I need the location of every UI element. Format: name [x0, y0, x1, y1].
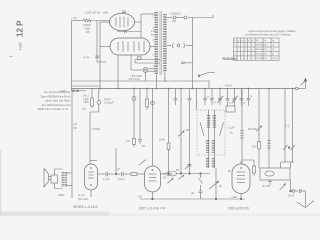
wire drop x285 switch S4: [284, 89, 286, 163]
svg-text:2000 µF/5.5 W: 2000 µF/5.5 W: [227, 207, 250, 211]
terminal beads on bus left: [73, 90, 75, 92]
table of voltages: [234, 38, 280, 60]
bus main rail y88.5: [72, 88, 296, 90]
tube VA output envelope: [85, 164, 98, 190]
antenna A1: [295, 87, 298, 90]
wire left drop to rails: [71, 21, 73, 92]
wire drop x140: [139, 89, 141, 140]
svg-text:4W: 4W: [172, 19, 176, 23]
capacitor C8 coupling: [138, 139, 142, 141]
svg-text:µF 100: µF 100: [262, 184, 271, 188]
tube VB envelope: [145, 166, 161, 192]
svg-text:+10: +10: [137, 195, 142, 199]
wire V2 left pin: [100, 46, 110, 48]
wire drop x234.5 capacitor C16 trimmer: [234, 89, 236, 99]
svg-text:2x300: 2x300: [272, 58, 279, 60]
coil L4 winding: [241, 130, 244, 139]
table cell marks: [234, 40, 278, 60]
rail bottom y199: [140, 198, 245, 200]
wire drop x292.5 switch S5: [292, 89, 294, 163]
detector stage box: [260, 168, 290, 180]
wire mains drop x192.5: [192, 18, 194, 89]
capacitor C20: [116, 173, 121, 175]
transformer T1 primary taps: [153, 16, 155, 66]
IF coil L3b below box: [212, 158, 215, 168]
IF coil L3a below box: [206, 158, 209, 168]
IF coil L2b: [212, 140, 215, 153]
wire drop x181 trimmer: [180, 89, 182, 174]
wire drop x168.5: [168, 89, 170, 144]
tube VA electrodes: [88, 171, 94, 173]
wire VC bottom: [240, 194, 242, 200]
wire VC top: [240, 161, 242, 164]
wire x141 riser: [140, 14, 142, 38]
junction dots on bus: [99, 80, 293, 89]
wire heater taps upper: [135, 59, 160, 61]
IF coil L1b: [213, 115, 216, 128]
svg-text:+0,1µ: +0,1µ: [83, 55, 90, 59]
wire V1 right pin: [135, 21, 142, 23]
capacitor C24: [268, 179, 272, 181]
wire y162 link: [281, 161, 294, 163]
svg-text:+120: +120: [231, 195, 237, 199]
capacitor C11: [188, 164, 192, 166]
svg-text:Spannungen gemessen gegen Chas: Spannungen gemessen gegen Chassis: [249, 29, 297, 33]
svg-text:0,1µF: 0,1µF: [104, 97, 111, 101]
IF coil L2a: [206, 140, 209, 153]
svg-text:µF: µF: [117, 167, 120, 171]
svg-text:0Ω: 0Ω: [163, 176, 166, 180]
svg-text:Huth: Huth: [19, 42, 23, 50]
wire +A supply top horizontal: [72, 20, 84, 22]
speaker voice coil box: [51, 175, 58, 183]
resistor R7: [131, 173, 137, 176]
svg-text:0,3MΩ: 0,3MΩ: [93, 127, 101, 131]
wire top y14 to transformer: [141, 13, 155, 15]
earth jack terminal: [292, 190, 295, 193]
wire IF feeds: [208, 110, 210, 168]
svg-text:RE604 u. A 4110: RE604 u. A 4110: [73, 205, 98, 209]
pilot lamp LP1: [143, 68, 148, 73]
svg-text:(L 42): (L 42): [78, 193, 85, 197]
wire lamp bottom to rail: [145, 72, 147, 81]
svg-text:220Ω: 220Ω: [58, 193, 64, 197]
wire long drop x72 left: [71, 91, 73, 198]
note paragraph: [38, 90, 71, 111]
wire drop x248.5 capacitor C18: [248, 89, 250, 99]
wire drop x241.5 capacitor C17: [241, 89, 243, 99]
wire drop x175.5 with capacitor C9: [175, 89, 177, 99]
tube VC envelope: [232, 164, 250, 194]
tube VB electrodes: [149, 173, 157, 175]
tube V2 envelope: [110, 38, 150, 55]
switch S6 above VB: [139, 160, 146, 166]
resistor R2: [91, 98, 94, 106]
svg-text:750Ω: 750Ω: [84, 26, 90, 30]
wire drop x196.5: [196, 89, 198, 111]
resistor R8 beside VC: [253, 166, 256, 173]
junction x116: [115, 148, 117, 174]
wire drop x134: [133, 89, 135, 139]
svg-text:RGN4: RGN4: [225, 85, 232, 88]
svg-text:des Widerstandes auf: des Widerstandes auf: [41, 103, 70, 107]
svg-text:500 4W: 500 4W: [248, 127, 257, 131]
svg-text:g: g: [238, 40, 239, 42]
coil L7 oval: [265, 171, 274, 176]
wire drop x212 capacitor C13: [211, 89, 213, 99]
svg-text:6007 u.D.4 W: 6007 u.D.4 W: [139, 207, 159, 211]
wire VA bottom: [90, 190, 92, 197]
svg-text:4µ: 4µ: [230, 131, 233, 135]
svg-text:50Ω: 50Ω: [252, 145, 257, 149]
junction dots bottom: [115, 173, 117, 175]
wire drop x92: [91, 89, 93, 99]
fuse F1: [173, 16, 176, 19]
coil L6 oval: [169, 171, 177, 176]
IF/tuning section below bus: [167, 89, 250, 174]
tube V2 electrodes: [117, 42, 119, 51]
svg-text:g: g: [241, 40, 242, 42]
wire drop x227.5 capacitor C15: [227, 89, 229, 99]
capacitor C4: [181, 61, 185, 63]
wire AF line y173.5: [163, 173, 166, 175]
wire drop x205 capacitor C12: [204, 89, 206, 99]
trimmer T below: [179, 175, 185, 180]
svg-text:0,007 µF 4g ~ 2kΩ: 0,007 µF 4g ~ 2kΩ: [85, 11, 108, 15]
svg-text:0,1µF: 0,1µF: [228, 126, 235, 130]
wire x290.5 to earth jack: [290, 180, 292, 191]
output transformer T2 winding a: [61, 172, 64, 187]
resistor R5: [167, 143, 170, 150]
svg-text:0,3: 0,3: [126, 139, 130, 143]
svg-text:RGN354: RGN354: [223, 57, 239, 61]
wire VC anode link: [242, 160, 254, 166]
wire drop x147 with resistor R3: [146, 89, 148, 100]
wire drop x242 with coil L4: [241, 89, 243, 131]
capacitor C2 top of V1: [122, 10, 126, 12]
svg-text:1500Ω: 1500Ω: [83, 23, 91, 27]
wire V2 bottom to pilot lamp: [130, 55, 132, 70]
rail mid y86: [72, 85, 101, 87]
switch S3 right of IF: [220, 122, 224, 136]
speaker frame bracket: [55, 169, 63, 175]
svg-text:0,1µF: 0,1µF: [288, 195, 295, 198]
trimmer arrows mid: [185, 164, 191, 169]
svg-text:µF: µF: [228, 169, 231, 173]
wire drop x259 trimmer + resistor R6: [258, 89, 260, 142]
tube VC electrodes: [237, 171, 246, 173]
wire drop x220 capacitor C14 trimmer: [219, 89, 221, 99]
svg-text:RE134: RE134: [256, 53, 263, 55]
transformer T1 core: [159, 11, 161, 75]
wire drop x152.5 to tube VB: [152, 89, 154, 167]
svg-text:mit Röhrenvoltmeter bei 220 V: mit Röhrenvoltmeter bei 220 V Netzsp.: [245, 32, 291, 36]
wire V1 cathode link: [118, 31, 141, 33]
capacitor C3 heater: [138, 57, 142, 60]
svg-text:µF: µF: [219, 184, 222, 188]
svg-text:110/220V: 110/220V: [170, 12, 181, 16]
wire mains line y17.5: [167, 17, 172, 19]
wire x97 drop: [96, 21, 98, 63]
capacitor C26 electrolytic: [151, 101, 155, 105]
wire VA top feed: [90, 108, 99, 164]
wire x216 drop: [215, 168, 217, 199]
IF transformer shield dashed box: [197, 110, 225, 155]
svg-text:350V: 350V: [83, 101, 89, 104]
variable capacitor C23 arrow: [209, 181, 219, 189]
pickup jack J1: [172, 43, 173, 48]
scan shadow left edge: [0, 150, 1, 216]
capacitor C19: [105, 172, 107, 176]
svg-text:2×0,1µF: 2×0,1µF: [104, 101, 114, 105]
output transformer T2 winding b: [65, 172, 68, 187]
wire V2 right pin: [150, 46, 155, 48]
capacitor C28: [124, 30, 126, 33]
capacitor C6: [132, 97, 136, 101]
trimmer C25 arrow: [280, 184, 287, 191]
ground symbol: [305, 191, 307, 207]
wire T2 to drop: [66, 172, 72, 174]
transformer T1 secondary winding: [163, 14, 167, 72]
rail upper heater y81: [72, 81, 210, 89]
tick marks on x72: [74, 123, 78, 125]
coil L5 winding: [268, 140, 271, 150]
scan shadow bottom edge: [0, 212, 110, 217]
svg-text:Rö.: Rö.: [256, 40, 260, 42]
wire V1 left pin: [100, 21, 110, 23]
switch S2 left of IF: [200, 122, 204, 136]
svg-text:4Ω: 4Ω: [82, 107, 85, 111]
resistor R4 grid: [133, 139, 136, 145]
svg-text:(1/2 L42): (1/2 L42): [78, 197, 89, 201]
wire VB right cap C21: [161, 173, 167, 175]
svg-text:µF: µF: [191, 191, 194, 195]
wire drop x269 with coil L5: [268, 89, 270, 141]
wire x100 drop: [99, 22, 101, 89]
wire VB bottom: [152, 192, 154, 199]
resistor R1: [83, 19, 91, 22]
tube V1 electrodes: [115, 18, 117, 27]
registration tick top-left: [9, 55, 13, 58]
wire VA grid right: [98, 173, 106, 175]
switch S1 mains: [198, 75, 200, 77]
tube V1 rectifier envelope: [110, 13, 135, 31]
wire tap y62: [97, 61, 106, 63]
speaker cone: [44, 169, 49, 188]
wire lamp to transformer heater: [148, 68, 155, 70]
svg-text:220Ω: 220Ω: [60, 89, 66, 93]
coupling box top right of IF: [226, 106, 235, 112]
wire drop x189.5 capacitor C10: [189, 89, 191, 99]
svg-text:4W: 4W: [86, 30, 90, 34]
svg-text:+4V 1A 0,5: +4V 1A 0,5: [128, 78, 140, 81]
capacitor C5 electrolytic: [98, 89, 100, 101]
svg-text:0,1: 0,1: [286, 124, 290, 128]
wire stub y160: [90, 160, 97, 162]
cap value labels below bus: [197, 96, 254, 105]
capacitor C1: [95, 55, 99, 57]
switch S7: [199, 178, 203, 184]
wire T1 secondary bottom to rail: [164, 72, 166, 81]
wire T1 primary bottom to bus: [155, 74, 157, 89]
svg-text:2000 Ohm erhöht. 4 W: 2000 Ohm erhöht. 4 W: [38, 107, 69, 111]
svg-text:g: g: [252, 40, 253, 42]
capacitor C22: [199, 190, 203, 192]
svg-text:12 P: 12 P: [16, 20, 25, 37]
svg-text:+ 4V: + 4V: [71, 16, 77, 20]
trimmer arrow left low: [168, 178, 174, 184]
svg-text:0,1µF: 0,1µF: [118, 177, 125, 181]
svg-text:1,7µF: 1,7µF: [103, 177, 110, 181]
wire x118 cathode drop: [117, 55, 119, 89]
IF coil L1a: [207, 115, 210, 128]
svg-text:0,5M: 0,5M: [159, 138, 165, 142]
transformer T1 primary winding: [155, 12, 159, 74]
